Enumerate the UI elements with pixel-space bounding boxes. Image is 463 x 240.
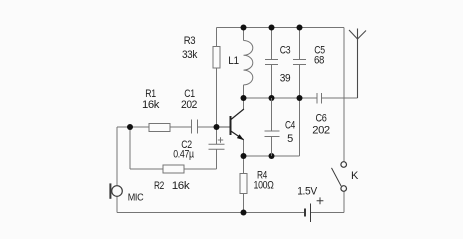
label R3 (184, 35, 196, 47)
svg-text:16k: 16k (172, 180, 190, 192)
label R1 (145, 88, 156, 100)
transistor Q1 emitter diagonal (231, 131, 244, 140)
svg-text:0.47µ: 0.47µ (173, 149, 194, 161)
label R2 value 16k (172, 180, 190, 192)
wire C6 right lead to antenna (322, 97, 358, 99)
label L1 (228, 55, 239, 67)
wire R2 branch drop (129, 127, 131, 169)
label R4 value 100ohm (254, 180, 274, 192)
wire C3 top lead (271, 28, 273, 60)
wire R4 top lead (243, 156, 245, 174)
label C5 (314, 45, 325, 57)
svg-text:R3: R3 (184, 35, 196, 47)
switch K blade (332, 168, 342, 186)
label C1 (184, 88, 195, 100)
wire L1 top lead (243, 28, 245, 41)
label C4 (285, 120, 295, 132)
label C3 value 39 (280, 73, 291, 85)
wire C4 top lead (271, 98, 273, 131)
wire R3 bottom lead to base node (216, 68, 218, 127)
capacitor C2 electrolytic (209, 144, 225, 149)
label C4 value 5 (287, 133, 293, 145)
wire C6 left lead (300, 97, 318, 99)
resistor R4 body (240, 174, 247, 194)
label switch K (351, 170, 359, 182)
svg-text:C4: C4 (285, 120, 295, 132)
wire emitter stub (243, 140, 245, 156)
label R2 (154, 180, 164, 192)
node dot C5 top (297, 25, 303, 31)
capacitor C1 (192, 120, 198, 134)
node dot C3 top (269, 25, 275, 31)
wire C3 bottom lead (271, 65, 273, 99)
wire C2 bottom lead (216, 149, 218, 169)
label C5 value 68 (314, 55, 324, 67)
battery negative plate (304, 209, 306, 217)
wire R4 bottom lead (243, 194, 245, 213)
node dot C4 bottom (269, 153, 275, 159)
label C3 (280, 45, 291, 57)
transistor Q1 collector diagonal (231, 109, 244, 120)
label C6 (316, 113, 327, 125)
antenna right arm (358, 31, 367, 40)
wire bottom rail right of battery (311, 212, 345, 214)
svg-text:C3: C3 (280, 45, 291, 57)
wire C2 top lead (216, 127, 218, 144)
switch K upper contact (341, 162, 347, 168)
wire C5 node down to emitter rail (299, 98, 301, 156)
wire R2 row right (184, 168, 217, 170)
capacitor C6 (317, 93, 322, 104)
svg-text:K: K (351, 170, 359, 182)
wire switch feed (top rail down to switch K) (343, 28, 345, 162)
C2 polarity plus mark (218, 137, 223, 142)
label R4 (257, 170, 267, 182)
svg-text:100Ω: 100Ω (254, 180, 274, 192)
wire L1 bottom lead (243, 85, 245, 98)
label R3 value 33k (182, 49, 198, 61)
svg-text:5: 5 (287, 133, 293, 145)
wire C5 bottom lead (299, 65, 301, 99)
node dot C5/C6 junction (297, 95, 303, 101)
svg-text:202: 202 (312, 125, 330, 137)
svg-text:C6: C6 (316, 113, 327, 125)
node dot base (214, 124, 220, 130)
wire C1 to base (198, 126, 230, 128)
label R1 value 16k (142, 99, 160, 111)
wire bottom rail left of battery (117, 212, 305, 214)
wire base row left (mic node to R1) (117, 126, 149, 128)
svg-text:202: 202 (181, 99, 197, 111)
wire C4 bottom lead (271, 137, 273, 157)
resistor R2 body (163, 165, 184, 173)
label battery voltage 1.5V (297, 186, 317, 198)
transistor Q1 base bar (230, 116, 232, 135)
antenna left arm (349, 30, 358, 39)
battery plus label (317, 197, 324, 204)
wire mic column (116, 127, 118, 213)
inductor L1 (244, 41, 253, 85)
transistor Q1 emitter arrow (237, 134, 244, 140)
resistor R1 body (149, 124, 170, 132)
wire switch bottom lead (343, 191, 345, 212)
node dot C3/C4 junction (269, 95, 275, 101)
label C6 value 202 (312, 125, 330, 137)
label C2 (181, 139, 192, 151)
transistor Q1 base lead (220, 126, 230, 128)
node dot L1 top (241, 25, 247, 31)
node dot mic/R2 branch (127, 124, 133, 130)
svg-text:L1: L1 (228, 55, 239, 67)
svg-text:16k: 16k (142, 99, 160, 111)
wire tank rail (L1/C3/C5 bottoms) (244, 97, 300, 99)
wire collector stub (243, 98, 245, 109)
node dot R4 bottom (241, 210, 247, 216)
wire top rail (217, 27, 345, 29)
capacitor C4 (265, 131, 280, 137)
switch K lower contact (341, 186, 347, 192)
capacitor C3 (265, 60, 278, 65)
wire R2 row left (130, 168, 163, 170)
wire R1 to C1 (170, 126, 192, 128)
wire C5 top lead (299, 28, 301, 60)
label C1 value 202 (181, 99, 197, 111)
svg-text:MIC: MIC (128, 193, 144, 204)
node dot emitter (241, 153, 247, 159)
svg-text:68: 68 (314, 55, 324, 67)
label C2 value 0.47u (173, 149, 194, 161)
battery positive plate (310, 204, 312, 223)
wire R3 top lead (216, 28, 218, 47)
resistor R3 body (213, 47, 220, 69)
antenna mast (357, 29, 359, 99)
microphone MIC bar (109, 183, 111, 198)
svg-text:33k: 33k (182, 49, 198, 61)
svg-text:39: 39 (280, 73, 291, 85)
microphone MIC circle (112, 186, 123, 197)
svg-text:R2: R2 (154, 180, 164, 192)
capacitor C5 (293, 60, 306, 65)
svg-text:1.5V: 1.5V (297, 186, 317, 198)
label MIC (128, 193, 144, 204)
wire emitter rail (244, 155, 300, 157)
node dot L1 bottom / collector (241, 95, 247, 101)
